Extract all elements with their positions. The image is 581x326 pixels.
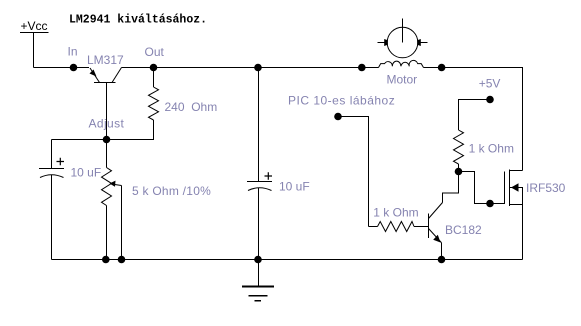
svg-text:Motor: Motor — [387, 73, 418, 87]
svg-text:10 uF: 10 uF — [279, 180, 310, 194]
svg-text:+5V: +5V — [479, 77, 501, 91]
svg-text:+Vcc: +Vcc — [21, 19, 48, 33]
svg-text:LM317: LM317 — [87, 53, 124, 67]
svg-text:In: In — [68, 45, 78, 59]
svg-text:PIC 10-es lábához: PIC 10-es lábához — [288, 94, 395, 108]
svg-text:Out: Out — [145, 45, 165, 59]
svg-text:Adjust: Adjust — [89, 117, 125, 131]
svg-text:IRF530: IRF530 — [526, 181, 566, 195]
svg-text:240 Ohm: 240 Ohm — [165, 100, 218, 114]
svg-text:1 k Ohm: 1 k Ohm — [469, 142, 514, 156]
svg-text:5 k Ohm /10%: 5 k Ohm /10% — [132, 184, 211, 198]
svg-text:BC182: BC182 — [445, 223, 482, 237]
svg-text:LM2941 kiváltásához.: LM2941 kiváltásához. — [69, 13, 207, 26]
svg-text:10 uF: 10 uF — [71, 166, 102, 180]
svg-text:1 k Ohm: 1 k Ohm — [373, 206, 418, 220]
